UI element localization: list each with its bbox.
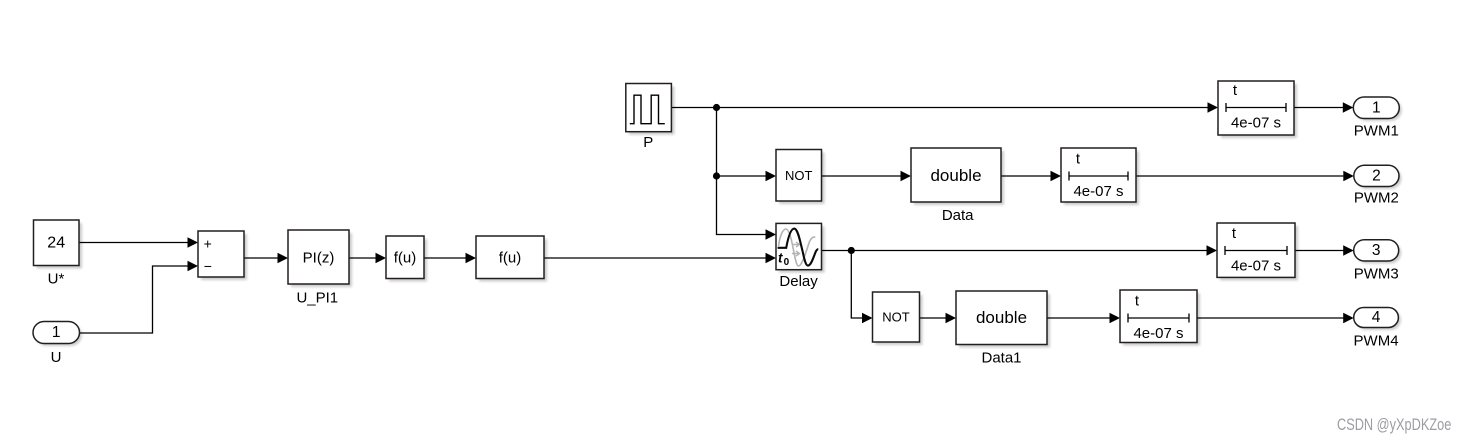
wire: branch down from Delay output to NOT1 <box>851 251 872 324</box>
svg-text:f(u): f(u) <box>499 250 522 267</box>
svg-text:−: − <box>204 258 212 274</box>
svg-text:0: 0 <box>784 257 790 268</box>
svg-text:U: U <box>51 349 62 366</box>
svg-text:1: 1 <box>52 324 61 341</box>
PI(z) discrete PID controller U_PI1 <box>288 230 352 306</box>
wire: NOT to double (Data) <box>822 171 912 181</box>
logical operator NOT <box>776 150 825 205</box>
CSDN watermark <box>1337 415 1451 434</box>
variable time delay block Delay <box>776 223 825 289</box>
wire: PI(z) to f(u) Fcn <box>349 253 386 263</box>
data type conversion double (Data) <box>911 148 1004 224</box>
pulse generator P <box>626 84 675 152</box>
svg-text:U*: U* <box>48 271 65 288</box>
weighted sample time block (PWM1 row) <box>1218 81 1297 138</box>
wire: f(u) Fcn to f(u) Fcn1 <box>424 253 476 263</box>
wire: NOT1 to double (Data1) <box>920 313 957 323</box>
wire: branch down from P line to NOT and Delay input 1 <box>717 108 777 240</box>
svg-text:4e-07 s: 4e-07 s <box>1133 325 1183 342</box>
constant block 24 (U*) <box>34 220 83 288</box>
svg-text:Data1: Data1 <box>981 349 1021 366</box>
logical operator NOT1 <box>873 292 923 345</box>
wire: branch to NOT input <box>717 171 777 181</box>
junction node on P line <box>713 104 720 111</box>
svg-text:P: P <box>643 134 653 151</box>
output port PWM3 <box>1354 240 1402 282</box>
wire: double1 to rate block (PWM4 row) <box>1047 313 1120 323</box>
wire: rate block to PWM3 port <box>1295 245 1354 255</box>
wire: pulse generator P to rate block (PWM1 row) <box>671 102 1218 112</box>
output port PWM4 <box>1354 308 1401 350</box>
data type conversion double (Data1) <box>956 291 1050 366</box>
svg-text:CSDN @yXpDKZoe: CSDN @yXpDKZoe <box>1337 415 1451 434</box>
wire: rate block to PWM4 port <box>1197 313 1354 323</box>
svg-text:4e-07 s: 4e-07 s <box>1231 115 1281 132</box>
wire: sum to PI(z) <box>244 253 288 263</box>
svg-text:U_PI1: U_PI1 <box>296 289 338 306</box>
svg-text:4e-07 s: 4e-07 s <box>1073 183 1123 200</box>
wire: rate block to PWM1 port <box>1294 102 1353 112</box>
weighted sample time block (PWM2 row) <box>1061 148 1139 205</box>
wire: constant 24 to sum + input <box>79 237 198 247</box>
svg-text:PI(z): PI(z) <box>303 250 335 267</box>
weighted sample time block (PWM3 row) <box>1217 223 1298 280</box>
svg-text:double: double <box>976 308 1027 327</box>
output port PWM1 <box>1353 97 1402 140</box>
input port 1 (U) <box>33 322 82 366</box>
svg-text:PWM1: PWM1 <box>1354 123 1399 140</box>
svg-text:NOT: NOT <box>882 310 910 325</box>
svg-text:2: 2 <box>1372 167 1381 184</box>
output port PWM2 <box>1354 165 1402 206</box>
svg-text:1: 1 <box>1372 99 1381 116</box>
wire: Delay output to rate block (PWM3 row) <box>822 245 1218 255</box>
svg-text:double: double <box>930 166 981 185</box>
svg-text:PWM3: PWM3 <box>1354 265 1399 282</box>
wire: double to rate block (PWM2 row) <box>1001 171 1061 181</box>
svg-text:PWM4: PWM4 <box>1354 332 1399 349</box>
svg-text:24: 24 <box>47 234 65 251</box>
wire: rate block to PWM2 port <box>1136 171 1354 181</box>
junction node at NOT branch <box>713 172 720 179</box>
weighted sample time block (PWM4 row) <box>1120 290 1200 346</box>
sum block + - <box>198 231 247 280</box>
svg-text:t: t <box>778 251 783 266</box>
svg-text:f(u): f(u) <box>394 250 417 267</box>
wire: inport U up to sum - input <box>80 261 199 333</box>
svg-text:3: 3 <box>1372 242 1381 259</box>
svg-text:4: 4 <box>1372 309 1381 326</box>
svg-text:4e-07 s: 4e-07 s <box>1231 258 1281 275</box>
wire: f(u) Fcn1 to Delay lower input t0 <box>544 253 776 263</box>
junction node at Delay output branch <box>848 247 855 254</box>
svg-text:Data: Data <box>942 207 974 224</box>
svg-text:NOT: NOT <box>785 168 813 183</box>
Fcn block f(u) 2 <box>476 236 547 282</box>
svg-text:Delay: Delay <box>779 273 818 290</box>
Fcn block f(u) <box>386 236 427 282</box>
svg-text:+: + <box>204 235 212 251</box>
svg-text:PWM2: PWM2 <box>1354 190 1399 207</box>
